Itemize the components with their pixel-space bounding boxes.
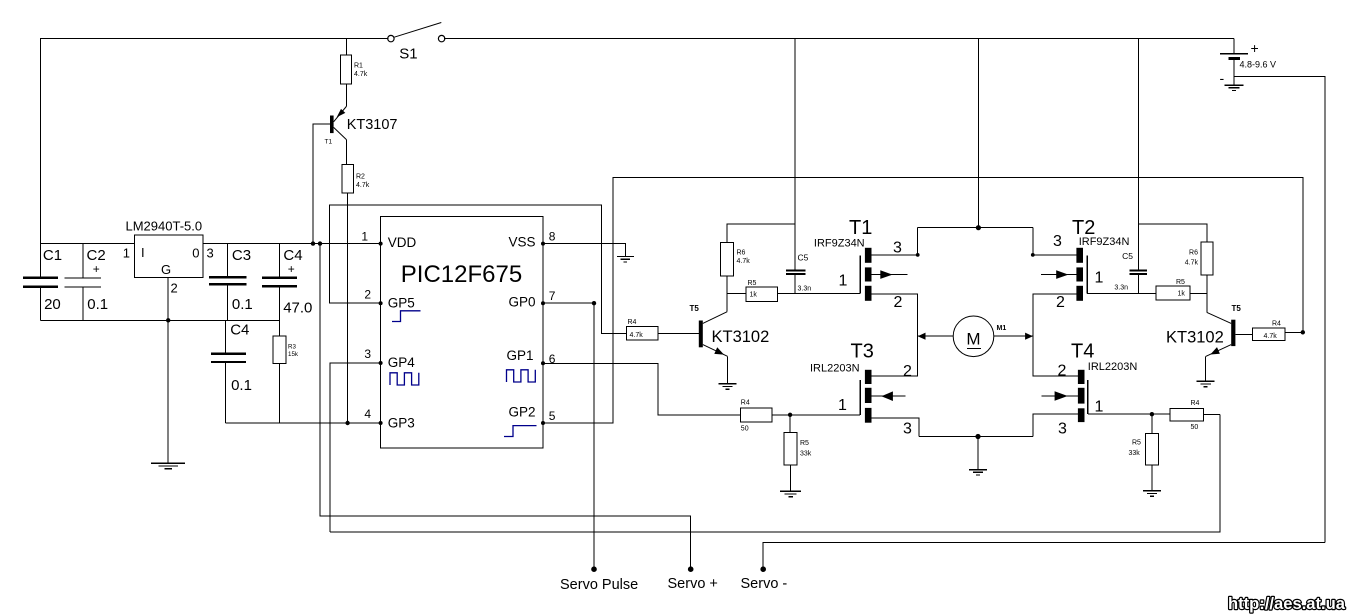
wire R6 top link bbox=[727, 224, 795, 242]
svg-text:5: 5 bbox=[549, 409, 556, 423]
wire T5 collector riser bbox=[726, 276, 728, 312]
svg-text:2: 2 bbox=[1058, 363, 1067, 380]
svg-text:-: - bbox=[1220, 70, 1225, 86]
svg-text:2: 2 bbox=[894, 294, 903, 311]
resistor R5 33k right bbox=[1129, 433, 1159, 465]
wire R5 left line bbox=[727, 293, 746, 295]
svg-text:2: 2 bbox=[1056, 294, 1065, 311]
node servo plus connector bbox=[668, 566, 718, 592]
wire T5 emitter down bbox=[727, 356, 729, 384]
wire T2 source stub bbox=[1031, 228, 1077, 257]
waveform glyph GP1 bbox=[507, 370, 536, 382]
wire top rail right segment bbox=[444, 38, 1234, 40]
svg-text:IRF9Z34N: IRF9Z34N bbox=[1079, 236, 1130, 248]
wire T5 right collector riser bbox=[1206, 275, 1208, 312]
waveform glyph GP5 bbox=[392, 311, 421, 322]
wire servo minus riser bbox=[763, 542, 1325, 566]
regulator U1 LM2940T-5.0 bbox=[123, 219, 214, 296]
svg-text:http://aes.at.ua: http://aes.at.ua bbox=[1228, 595, 1346, 613]
svg-text:I: I bbox=[141, 245, 145, 260]
wire H-bridge source rail bottom bbox=[919, 436, 1033, 438]
wire battery minus to right edge bbox=[1234, 76, 1325, 542]
capacitor C4b 0.1 bbox=[211, 320, 252, 423]
wire battery drop bbox=[1233, 39, 1235, 54]
resistor R6 left 4.7k bbox=[721, 242, 751, 276]
capacitor C3 0.1 bbox=[209, 244, 253, 321]
wire T1 collector down bbox=[345, 140, 347, 165]
node R5-33k left junction bbox=[788, 413, 792, 417]
node battery drop junction bbox=[976, 225, 981, 230]
svg-text:4.8-9.6 V: 4.8-9.6 V bbox=[1240, 60, 1277, 70]
resistor R5 33k left bbox=[784, 432, 812, 465]
svg-text:R5: R5 bbox=[800, 440, 809, 447]
svg-text:R1: R1 bbox=[354, 63, 363, 70]
wire servo minus rail B bbox=[330, 415, 1220, 533]
ground R5 right bbox=[1143, 491, 1161, 496]
IC U2 PIC12F675 body bbox=[381, 217, 543, 449]
wire GP2 route bbox=[543, 178, 1303, 424]
resistor R4 4.7k left bbox=[627, 319, 659, 340]
wire T5 right base line bbox=[1235, 333, 1252, 335]
resistor R2 bbox=[342, 164, 370, 192]
svg-text:0: 0 bbox=[192, 246, 199, 261]
ground H-bridge bbox=[969, 470, 987, 475]
node servo pulse connector bbox=[560, 566, 638, 593]
svg-text:3: 3 bbox=[893, 239, 902, 256]
svg-text:T3: T3 bbox=[851, 341, 874, 363]
wire motor left lead bbox=[918, 333, 954, 340]
wire R3 top lead bbox=[278, 320, 280, 336]
pin 2 GP5 bbox=[364, 287, 382, 305]
wire R4-50 to T3 gate bbox=[772, 414, 860, 416]
pin 1 VDD bbox=[361, 229, 382, 245]
wire R4-50 right link bbox=[1203, 414, 1220, 416]
svg-text:T1: T1 bbox=[849, 217, 872, 239]
waveform glyph GP4 bbox=[390, 373, 419, 385]
node GP2-R4 junction right bbox=[1301, 330, 1305, 334]
wire battery rail to C5 right bbox=[1138, 39, 1140, 271]
wire T4 drain stub bbox=[1033, 336, 1078, 376]
wire battery minus stem bbox=[1233, 60, 1235, 85]
svg-text:IRL2203N: IRL2203N bbox=[1088, 361, 1138, 373]
wire T2 drain stub bbox=[1033, 294, 1077, 336]
transistor T1 IRF9Z34N bbox=[814, 217, 908, 311]
wire GP5 route outer loop bbox=[330, 205, 627, 334]
svg-text:T5: T5 bbox=[690, 304, 700, 313]
svg-text:PIC12F675: PIC12F675 bbox=[401, 261, 522, 288]
wire T4 gate line bbox=[1088, 413, 1170, 415]
pin 7 GP0 bbox=[541, 289, 556, 305]
svg-text:4.7k: 4.7k bbox=[356, 182, 370, 189]
svg-text:VDD: VDD bbox=[388, 235, 417, 250]
svg-text:3: 3 bbox=[364, 347, 371, 361]
svg-text:R4: R4 bbox=[1272, 320, 1281, 327]
ground regulator bbox=[151, 463, 185, 468]
transistor T3 IRL2203N bbox=[810, 341, 912, 438]
transistor T5 KT3102 right bbox=[1166, 304, 1241, 356]
wire battery rail drop bbox=[977, 39, 979, 228]
svg-text:3: 3 bbox=[903, 421, 912, 438]
transistor T2 IRF9Z34N bbox=[1041, 217, 1129, 311]
svg-text:33k: 33k bbox=[800, 451, 812, 458]
transistor T1 KT3107 bbox=[325, 107, 398, 146]
svg-text:1: 1 bbox=[1095, 270, 1104, 287]
svg-text:1: 1 bbox=[361, 229, 368, 243]
pin 6 GP1 bbox=[541, 352, 556, 366]
svg-text:1k: 1k bbox=[750, 292, 758, 299]
svg-text:4.7k: 4.7k bbox=[354, 71, 368, 78]
wire T1 drain stub bbox=[872, 294, 918, 336]
wire GP4 route down-left bbox=[330, 363, 381, 532]
pin 4 GP3 bbox=[364, 407, 382, 425]
svg-text:4: 4 bbox=[364, 407, 371, 421]
svg-text:47.0: 47.0 bbox=[283, 300, 312, 317]
wire T1 source stub bbox=[872, 228, 920, 257]
wire regulator ground pin 2 bbox=[167, 278, 169, 464]
wire motor right lead bbox=[994, 333, 1033, 340]
node VDD-railA junction bbox=[318, 241, 322, 245]
wire R1 top tap bbox=[345, 39, 347, 55]
wire GP1 route bbox=[543, 363, 740, 415]
ground VSS bbox=[617, 257, 634, 262]
svg-text:4.7k: 4.7k bbox=[1264, 333, 1278, 340]
svg-text:T5: T5 bbox=[1232, 304, 1242, 313]
svg-text:R4: R4 bbox=[741, 399, 750, 406]
svg-text:G: G bbox=[161, 262, 171, 277]
svg-text:Servo -: Servo - bbox=[741, 576, 788, 592]
ground T5 left bbox=[719, 384, 737, 389]
wire GP3 net horizontal bbox=[225, 422, 380, 424]
svg-text:R4: R4 bbox=[1191, 400, 1200, 407]
svg-text:C4: C4 bbox=[230, 322, 249, 339]
wire GP0 to servo pulse bbox=[543, 301, 596, 567]
svg-text:3: 3 bbox=[1053, 233, 1062, 250]
resistor R5 1k left bbox=[746, 280, 778, 301]
node servo minus connector bbox=[741, 566, 788, 592]
wire C4 bottom to ground rail bbox=[278, 288, 280, 321]
wire gate line T1 bbox=[778, 293, 860, 295]
resistor R6 right 4.7k bbox=[1185, 242, 1213, 275]
svg-text:33k: 33k bbox=[1129, 450, 1141, 457]
wire H-bridge source rail top bbox=[918, 227, 1033, 229]
wire T3 drain stub bbox=[872, 336, 918, 376]
svg-text:R6: R6 bbox=[737, 250, 746, 257]
svg-text:+: + bbox=[1251, 40, 1259, 56]
svg-text:R5: R5 bbox=[1132, 440, 1141, 447]
ground battery bbox=[1225, 85, 1244, 90]
wire ground rail bbox=[41, 319, 280, 321]
svg-text:4.7k: 4.7k bbox=[1185, 260, 1199, 267]
svg-text:3.3n: 3.3n bbox=[798, 286, 812, 293]
battery BT1 4.8-9.6V bbox=[1220, 40, 1277, 86]
svg-text:GP1: GP1 bbox=[506, 348, 533, 363]
wire R5 right line bbox=[1190, 293, 1207, 295]
svg-text:50: 50 bbox=[1191, 424, 1199, 431]
svg-text:C5: C5 bbox=[1122, 251, 1133, 261]
svg-text:GP0: GP0 bbox=[508, 294, 535, 309]
svg-text:T1: T1 bbox=[325, 139, 333, 146]
svg-text:6: 6 bbox=[549, 352, 556, 366]
svg-text:C3: C3 bbox=[232, 247, 251, 264]
wire R6 right top link bbox=[1139, 224, 1207, 242]
wire T4 source stub bbox=[1033, 414, 1078, 436]
resistor R1 bbox=[341, 55, 368, 84]
svg-text:LM2940T-5.0: LM2940T-5.0 bbox=[126, 219, 203, 234]
resistor R3 15k bbox=[273, 336, 299, 363]
svg-text:20: 20 bbox=[44, 296, 61, 313]
svg-text:R5: R5 bbox=[748, 280, 757, 287]
wire 5V rail A to servo plus bbox=[320, 244, 691, 567]
svg-text:C1: C1 bbox=[43, 247, 62, 264]
wire R2 to GP3 net bbox=[347, 193, 349, 423]
svg-text:3: 3 bbox=[1058, 421, 1067, 438]
svg-text:R2: R2 bbox=[356, 174, 365, 181]
svg-text:C5: C5 bbox=[798, 253, 809, 263]
svg-text:1: 1 bbox=[123, 246, 130, 261]
svg-text:Servo Pulse: Servo Pulse bbox=[560, 577, 638, 593]
svg-text:15k: 15k bbox=[288, 351, 299, 358]
wire R1 to T1 emitter bbox=[345, 84, 347, 107]
wire T3 source stub bbox=[872, 418, 919, 437]
svg-text:M1: M1 bbox=[997, 325, 1007, 332]
svg-text:R5: R5 bbox=[1176, 279, 1185, 286]
svg-text:2: 2 bbox=[171, 281, 178, 296]
svg-text:GP4: GP4 bbox=[388, 355, 416, 370]
svg-text:1: 1 bbox=[1095, 398, 1104, 415]
capacitor C5 left 3.3n bbox=[786, 253, 811, 294]
capacitor C4 47.0 bbox=[262, 244, 312, 317]
svg-text:2: 2 bbox=[903, 363, 912, 380]
wire battery rail to C5 left bbox=[794, 39, 796, 271]
svg-text:4.7k: 4.7k bbox=[737, 258, 751, 265]
capacitor C5 right 3.3n bbox=[1114, 251, 1147, 294]
svg-text:50: 50 bbox=[741, 426, 749, 433]
pin 5 GP2 bbox=[541, 409, 556, 425]
svg-text:0.1: 0.1 bbox=[231, 377, 252, 394]
transistor T4 IRL2203N bbox=[1041, 341, 1137, 438]
watermark bbox=[1228, 595, 1346, 613]
svg-text:R3: R3 bbox=[288, 344, 296, 351]
svg-text:VSS: VSS bbox=[508, 234, 535, 249]
ground T5 right bbox=[1197, 381, 1215, 386]
wire R3 bottom to GP3 net bbox=[278, 363, 280, 423]
wire R5-33k right lead bbox=[1151, 414, 1153, 433]
wire bridge ground stem bbox=[977, 437, 979, 470]
svg-text:8: 8 bbox=[549, 229, 556, 243]
svg-text:R6: R6 bbox=[1189, 250, 1198, 257]
wire R4 right to GP2 riser bbox=[1285, 331, 1303, 333]
wire VSS to ground bbox=[543, 244, 625, 257]
motor M1 bbox=[953, 316, 1006, 357]
resistor R4 50 right bbox=[1170, 400, 1203, 431]
svg-text:2: 2 bbox=[364, 287, 371, 301]
node R5-33k right junction bbox=[1150, 412, 1154, 416]
pin 8 VSS bbox=[541, 229, 556, 245]
pin 3 GP4 bbox=[364, 347, 382, 365]
svg-text:Servo +: Servo + bbox=[668, 576, 718, 592]
svg-text:+: + bbox=[288, 262, 295, 276]
svg-text:IRL2203N: IRL2203N bbox=[810, 363, 860, 375]
svg-text:GP5: GP5 bbox=[388, 296, 415, 311]
capacitor C1 20 bbox=[23, 244, 62, 321]
svg-text:3.3n: 3.3n bbox=[1114, 285, 1128, 292]
svg-text:GP2: GP2 bbox=[508, 404, 535, 419]
wire R5-33k left lead bbox=[789, 415, 791, 433]
svg-text:T4: T4 bbox=[1071, 341, 1094, 363]
svg-text:1: 1 bbox=[839, 273, 848, 290]
wire R5-33k right ground stem bbox=[1151, 465, 1153, 491]
resistor R5 1k right bbox=[1156, 279, 1190, 300]
waveform glyph GP2 bbox=[504, 426, 537, 437]
svg-text:M: M bbox=[966, 330, 980, 349]
node R2-GP3 junction bbox=[345, 421, 349, 425]
resistor R4 50 left bbox=[740, 399, 772, 432]
svg-text:0.1: 0.1 bbox=[232, 296, 253, 313]
wire R4 to T5 base bbox=[658, 333, 699, 335]
svg-text:KT3107: KT3107 bbox=[347, 117, 398, 133]
wire VBAT rail into regulator bbox=[41, 243, 135, 245]
node bridge ground junction bbox=[975, 434, 980, 439]
node G junction on ground rail bbox=[166, 318, 170, 322]
svg-text:GP3: GP3 bbox=[388, 416, 415, 431]
wire T5 right emitter down bbox=[1205, 356, 1207, 381]
svg-text:0.1: 0.1 bbox=[87, 296, 108, 313]
wire top rail left segment bbox=[41, 39, 389, 244]
node VDD-T1base junction bbox=[311, 241, 315, 245]
svg-text:IRF9Z34N: IRF9Z34N bbox=[814, 238, 865, 250]
transistor T5 KT3102 left bbox=[690, 304, 770, 357]
wire gate line T2 bbox=[1087, 293, 1156, 295]
ground R5 left bbox=[780, 491, 801, 496]
svg-text:3: 3 bbox=[207, 246, 214, 261]
svg-text:R4: R4 bbox=[628, 319, 637, 326]
svg-text:S1: S1 bbox=[399, 45, 417, 62]
resistor R4 4.7k right bbox=[1253, 320, 1285, 340]
svg-text:7: 7 bbox=[549, 289, 556, 303]
svg-text:+: + bbox=[93, 262, 100, 276]
svg-text:4.7k: 4.7k bbox=[630, 332, 644, 339]
svg-text:1: 1 bbox=[838, 397, 847, 414]
svg-text:1k: 1k bbox=[1178, 291, 1186, 298]
wire T1 base to VDD rail bbox=[313, 124, 330, 244]
switch S1 bbox=[388, 23, 445, 63]
svg-text:KT3102: KT3102 bbox=[1166, 329, 1224, 347]
wire R5-33k left ground stem bbox=[790, 465, 792, 491]
wire 5V rail regulator to PIC VDD bbox=[203, 243, 381, 245]
capacitor C2 0.1 bbox=[65, 244, 109, 321]
svg-text:KT3102: KT3102 bbox=[712, 328, 770, 346]
